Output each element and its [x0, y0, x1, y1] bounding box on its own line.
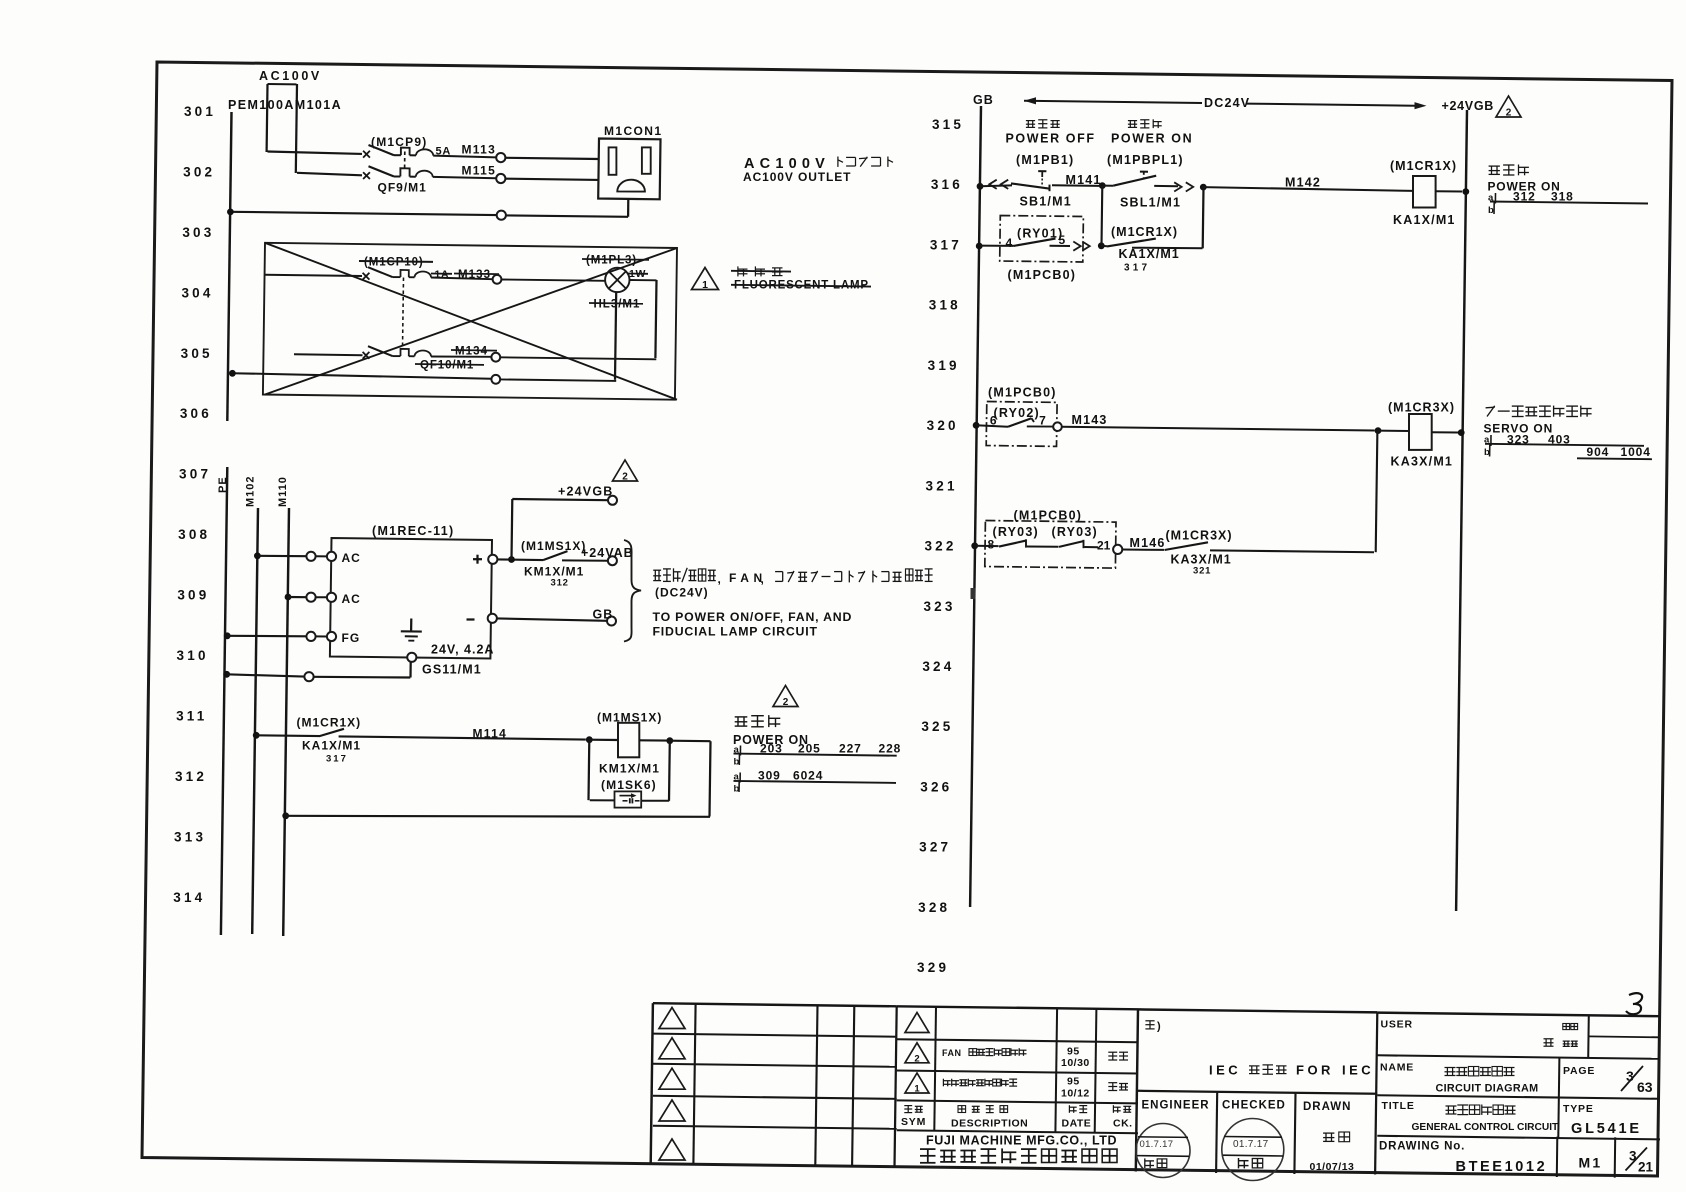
breaker label (M1CP9): [371, 135, 427, 149]
user/name/title cells frame: [1377, 1013, 1660, 1178]
junction M110 AC2: [285, 594, 292, 601]
wire M142: [1203, 187, 1413, 191]
wire +24VGB riser: [512, 499, 608, 560]
svg-text:317: 317: [930, 237, 962, 252]
wire row311 start: [256, 734, 320, 737]
junction M110 row313: [282, 812, 289, 819]
note brace: [624, 540, 641, 642]
source bracket AC100V: [267, 84, 297, 173]
stamp checked: [1222, 1119, 1284, 1181]
header CK: [1113, 1118, 1133, 1130]
crossref row b1: [734, 754, 740, 768]
svg-text:(DC24V): (DC24V): [655, 586, 709, 600]
engineer cells frame: [1216, 1092, 1295, 1174]
svg-text:M143: M143: [1072, 413, 1108, 427]
drawing no BTEE1012: [1456, 1159, 1548, 1175]
crossref row316 a: [1488, 190, 1648, 204]
deleted lamp right wire: [630, 280, 657, 358]
outlet label M1CON1: [604, 124, 662, 138]
pin label + (24V out): [473, 555, 482, 564]
svg-text:325: 325: [921, 719, 953, 734]
svg-text:DRAWING No.: DRAWING No.: [1379, 1141, 1465, 1153]
junction GB row317: [976, 243, 983, 250]
sheet 3/21: [1626, 1148, 1654, 1175]
wire + to node: [497, 558, 543, 561]
svg-text:(RY01): (RY01): [1017, 227, 1063, 241]
wire to coil: [589, 739, 618, 741]
revision date 95 10/12: [1061, 1076, 1090, 1100]
name kanji 電気回路線図: [1445, 1067, 1515, 1076]
terminal +24VAB: [608, 556, 617, 565]
svg-text:326: 326: [920, 779, 952, 794]
junction GB row316: [977, 183, 984, 190]
bus GB vertical: [970, 106, 981, 907]
revision strip triangle 5: [659, 1139, 685, 1160]
warning triangle 1: [692, 268, 719, 292]
relay contact RY03 second: [1059, 540, 1098, 548]
title GENERAL CONTROL CIRCUIT: [1412, 1122, 1560, 1133]
svg-text:FUJI MACHINE MFG.CO., LTD: FUJI MACHINE MFG.CO., LTD: [926, 1134, 1117, 1148]
breaker QF9/M1 pole 1: [268, 145, 497, 158]
note DC24V destinations kanji: [653, 568, 932, 586]
revision by 本田: [1108, 1052, 1128, 1060]
svg-text:228: 228: [879, 742, 902, 756]
rectifier designator GS11/M1: [422, 663, 482, 677]
contact KM1X/M1 (M1MS1X) label: [521, 539, 586, 553]
wire label M115: [462, 164, 497, 178]
svg-text:(M1CR3X): (M1CR3X): [1388, 401, 1455, 415]
deleted lamp bottom wire: [615, 292, 616, 380]
deleted box frame: [263, 243, 677, 400]
note IEC text: [1209, 1063, 1374, 1078]
pushbutton designator SBL1/M1: [1120, 196, 1181, 210]
junction GB row322: [971, 542, 978, 549]
wire outlet ground return: [506, 199, 628, 217]
header SYM kanji: [904, 1106, 922, 1113]
wire M143: [1062, 427, 1375, 431]
svg-text:KA3X/M1: KA3X/M1: [1391, 455, 1454, 469]
terminal + output: [488, 555, 497, 564]
svg-text:63: 63: [1637, 1079, 1653, 1095]
svg-text:(RY02): (RY02): [994, 406, 1040, 420]
svg-text:(M1SK6): (M1SK6): [601, 778, 657, 792]
terminal 24V bottom: [407, 653, 416, 662]
revision triangle 2: [905, 1043, 929, 1065]
terminal M143: [1053, 422, 1062, 431]
svg-text:KA1X/M1: KA1X/M1: [1119, 247, 1180, 261]
svg-text:(M1CR1X): (M1CR1X): [297, 716, 362, 730]
ground symbol: [401, 619, 422, 641]
revision strip triangle 1: [659, 1008, 685, 1029]
note TO POWER line1: [653, 610, 853, 624]
svg-text:DC24V: DC24V: [1204, 96, 1250, 110]
svg-text:DESCRIPTION: DESCRIPTION: [951, 1118, 1028, 1130]
pin label FG: [342, 631, 361, 645]
coil KA3X/M1 (M1CR3X): [1409, 414, 1432, 450]
svg-text:,: ,: [718, 572, 721, 586]
company kanji: [920, 1148, 1117, 1163]
deleted wire label M133: [454, 269, 499, 281]
svg-text:01.7.17: 01.7.17: [1233, 1139, 1269, 1150]
svg-text:2: 2: [783, 697, 789, 708]
svg-text:SYM: SYM: [901, 1116, 926, 1128]
wire FG link: [316, 635, 327, 637]
contact KA3X/M1 row322: [1165, 542, 1375, 552]
coil KA1X/M1 label (M1CR1X): [1390, 159, 1457, 173]
svg-text:1: 1: [914, 1084, 920, 1095]
header SYM: [901, 1116, 926, 1128]
junction PE FG: [224, 632, 231, 639]
svg-text:304: 304: [181, 285, 213, 300]
svg-text:01/07/13: 01/07/13: [1310, 1161, 1355, 1173]
label 殿: [1544, 1039, 1554, 1046]
sheet M1: [1579, 1155, 1603, 1171]
lamp HL3/M1 (deleted): [605, 268, 629, 292]
svg-text:324: 324: [922, 659, 954, 674]
wire 303 return to PE: [230, 212, 496, 215]
crossref SERVO ON: [1484, 422, 1554, 436]
svg-text:2: 2: [622, 472, 628, 483]
deleted note kanji fluorescent lamp: [731, 266, 791, 276]
svg-text:CIRCUIT DIAGRAM: CIRCUIT DIAGRAM: [1436, 1083, 1539, 1095]
svg-text:GB: GB: [593, 608, 614, 622]
svg-text:M146: M146: [1130, 536, 1166, 550]
deleted label HL3/M1: [589, 299, 643, 311]
wire coil right to corner: [670, 741, 711, 817]
outlet M1CON1 body: [598, 139, 660, 200]
crossref kanji POWER ON (row316): [1489, 165, 1529, 176]
wire M114: [339, 736, 586, 739]
wire label M142: [1285, 176, 1321, 190]
net label AC100V: [259, 69, 322, 83]
terminal M146: [1113, 545, 1122, 554]
svg-text:(M1PB1): (M1PB1): [1016, 153, 1074, 167]
wire label M143: [1072, 413, 1108, 427]
svg-text:NAME: NAME: [1380, 1062, 1414, 1074]
coil designator KA3X/M1: [1391, 455, 1454, 469]
pin label AC (top): [342, 551, 361, 565]
pushbutton SBL1/M1 POWER ON: [1111, 132, 1193, 146]
svg-text:5: 5: [1059, 233, 1066, 247]
pin 7: [1039, 414, 1046, 428]
deleted breaker label (M1CP10): [359, 257, 433, 269]
chevrons row316 left: [989, 180, 1008, 189]
contact designator KA1X/M1 (row311): [302, 739, 361, 753]
suppressor M1SK6: [615, 791, 642, 807]
svg-text:FOR: FOR: [1296, 1063, 1334, 1078]
type GL541E: [1571, 1121, 1642, 1137]
svg-text:4: 4: [1006, 236, 1013, 250]
pushbutton SB1/M1 POWER OFF: [1006, 132, 1096, 146]
svg-text:M115: M115: [462, 164, 497, 178]
svg-text:1: 1: [702, 279, 708, 291]
svg-text:303: 303: [182, 225, 214, 240]
drawn date: [1310, 1161, 1355, 1173]
svg-text:315: 315: [932, 117, 964, 132]
revision note fluorescent: [943, 1079, 1017, 1087]
relay RY03 box (M1PCB0): [985, 521, 1116, 569]
svg-text:311: 311: [176, 709, 207, 724]
svg-text:(M1PBPL1): (M1PBPL1): [1107, 153, 1184, 167]
svg-text:(RY03): (RY03): [1052, 525, 1098, 539]
svg-text:7: 7: [1039, 414, 1046, 428]
relay contact RY03 first: [975, 539, 1059, 547]
link row316-317: [1100, 186, 1103, 246]
revision date 95 10/30: [1061, 1046, 1090, 1070]
wire AC2 link: [316, 596, 327, 598]
deleted breaker pole 2: [294, 346, 492, 359]
contact KA1X/M1 blade (row311): [320, 729, 345, 736]
relay contact RY01: [979, 239, 1070, 246]
contact designator KM1X/M1: [524, 565, 584, 579]
svg-text:318: 318: [929, 298, 961, 313]
net label GB (left): [593, 608, 614, 622]
svg-text:314: 314: [173, 890, 205, 905]
svg-text:+24VGB: +24VGB: [558, 485, 614, 499]
revision strip frame: [651, 1003, 897, 1165]
bus label M102: [245, 475, 257, 507]
deleted terminal M133: [493, 275, 502, 284]
label NAME: [1380, 1062, 1414, 1074]
svg-text:CHECKED: CHECKED: [1222, 1100, 1286, 1112]
crossref row b2: [734, 781, 740, 795]
svg-text:ENGINEER: ENGINEER: [1142, 1100, 1210, 1112]
svg-text:M141: M141: [1066, 173, 1102, 187]
contact ref 317 (row311): [326, 754, 348, 765]
name CIRCUIT DIAGRAM: [1436, 1083, 1539, 1095]
svg-text:IEC: IEC: [1209, 1063, 1241, 1078]
pushbutton SBL1/M1 kanji POWER ON: [1128, 119, 1162, 128]
header CK kanji: [1113, 1105, 1131, 1113]
svg-text:KM1X/M1: KM1X/M1: [524, 565, 584, 579]
pushbutton SBL1/M1 contact: [1102, 172, 1178, 187]
net label +24VGB: [558, 485, 614, 499]
pushbutton SB1/M1 kanji POWER OFF: [1026, 120, 1060, 128]
label 分類: [1563, 1024, 1578, 1030]
svg-text:GS11/M1: GS11/M1: [422, 663, 482, 677]
rectifier GS11/M1 box (M1REC-11): [330, 538, 492, 659]
svg-text:302: 302: [183, 164, 215, 179]
note AC100V OUTLET: [743, 170, 851, 184]
svg-text:b: b: [1488, 205, 1494, 216]
svg-text:GL541E: GL541E: [1571, 1121, 1642, 1137]
wire coil KA3X to bus: [1432, 431, 1458, 433]
svg-text:329: 329: [917, 960, 949, 975]
contact designator KA3X/M1 row322: [1171, 553, 1232, 567]
svg-text:DRAWN: DRAWN: [1303, 1101, 1351, 1113]
svg-text:TITLE: TITLE: [1382, 1100, 1415, 1112]
svg-text:322: 322: [924, 539, 956, 554]
svg-text:321: 321: [1193, 566, 1211, 577]
deleted return wire: [232, 373, 491, 379]
handwritten page 3: [1626, 993, 1642, 1014]
coil KM1X/M1 (M1MS1X) label: [597, 711, 662, 725]
link row322-320 riser: [1376, 431, 1378, 553]
svg-text:KA3X/M1: KA3X/M1: [1171, 553, 1232, 567]
wire label M113: [462, 143, 497, 157]
junction M141: [1099, 182, 1106, 189]
svg-text:IEC: IEC: [1342, 1063, 1374, 1078]
relay label (RY01): [1017, 227, 1063, 241]
note kanji 注): [1145, 1021, 1161, 1033]
svg-text:320: 320: [927, 418, 959, 433]
net DC24V span: [1024, 97, 1427, 109]
pin 6: [990, 414, 997, 428]
terminal +24VGB: [608, 496, 617, 505]
svg-text:FG: FG: [342, 631, 361, 645]
svg-text:317: 317: [326, 754, 348, 765]
terminal GB: [607, 617, 616, 626]
junction M102 row311: [253, 732, 260, 739]
terminal M113: [496, 153, 505, 162]
terminal - output: [488, 614, 497, 623]
relay box label (M1PCB0) row317: [1008, 268, 1077, 282]
pushbutton designator SB1/M1: [1020, 195, 1072, 209]
deleted wire M134: [500, 357, 656, 359]
svg-text:M113: M113: [462, 143, 497, 157]
warning triangle 2 (row311): [773, 686, 798, 709]
breaker mechanical link: [404, 152, 406, 169]
deleted rating 1A: [431, 269, 452, 281]
revision note FAN: [942, 1048, 1027, 1058]
svg-text:321: 321: [926, 478, 958, 493]
crossref kanji SERVO ON: [1486, 406, 1592, 417]
wire - to GB: [497, 618, 607, 620]
wire PE to FG: [227, 635, 306, 638]
svg-text:M1CON1: M1CON1: [604, 124, 662, 138]
bus label PE: [217, 476, 229, 493]
wire AC1 link: [316, 555, 327, 557]
deleted label QF10/M1: [415, 360, 484, 372]
svg-text:327: 327: [919, 840, 951, 855]
wire RY02 to terminal: [1027, 425, 1053, 427]
label TITLE: [1382, 1100, 1415, 1112]
svg-text:312: 312: [551, 578, 569, 589]
svg-text:301: 301: [184, 104, 216, 119]
svg-text:PAGE: PAGE: [1563, 1065, 1595, 1077]
header ENGINEER: [1142, 1100, 1210, 1112]
revision by 本間: [1108, 1083, 1128, 1091]
coil designator KM1X/M1: [599, 762, 660, 776]
svg-text:01.7.17: 01.7.17: [1140, 1139, 1174, 1150]
svg-text:308: 308: [178, 527, 210, 542]
breaker designator QF9/M1: [378, 181, 427, 195]
terminal AC1 b: [327, 552, 336, 561]
svg-text:(M1CP9): (M1CP9): [371, 135, 427, 149]
svg-text:,: ,: [761, 572, 764, 586]
coil designator KA1X/M1: [1393, 213, 1456, 227]
contact ref 317: [1124, 263, 1150, 274]
header DRAWN: [1303, 1101, 1351, 1113]
warning triangle 2 (top right): [1496, 96, 1521, 119]
wire M141: [1052, 184, 1099, 187]
svg-text:904: 904: [1587, 445, 1610, 459]
svg-text:(M1PCB0): (M1PCB0): [988, 386, 1057, 400]
wire bottom to rectifier: [314, 662, 411, 678]
header DATE kanji: [1069, 1105, 1087, 1113]
svg-text:10/30: 10/30: [1061, 1057, 1090, 1069]
svg-text:2: 2: [1506, 108, 1512, 119]
svg-text:AC: AC: [342, 551, 361, 565]
svg-text:QF9/M1: QF9/M1: [378, 181, 427, 195]
svg-text:AC100V: AC100V: [259, 69, 322, 83]
svg-text:TO POWER ON/OFF, FAN, AND: TO POWER ON/OFF, FAN, AND: [653, 610, 853, 624]
svg-text:316: 316: [931, 177, 963, 192]
contact designator KA1X/M1 row317: [1119, 247, 1180, 261]
svg-text:310: 310: [177, 648, 209, 663]
terminal AC2 a: [306, 593, 315, 602]
svg-text:DATE: DATE: [1062, 1118, 1092, 1130]
deleted return terminal: [491, 375, 500, 384]
svg-text:BTEE1012: BTEE1012: [1456, 1159, 1548, 1175]
svg-text:AC100V OUTLET: AC100V OUTLET: [743, 170, 851, 184]
revision triangle row A: [905, 1013, 929, 1033]
coil KM1X/M1 (M1MS1X): [618, 723, 639, 758]
svg-text:21: 21: [1097, 539, 1111, 553]
deleted terminal M134: [491, 353, 500, 362]
svg-text:307: 307: [179, 467, 211, 482]
revision table frame: [895, 1006, 1139, 1171]
header DESCRIPTION kanji: [958, 1106, 1008, 1113]
crossref row320 b: [1484, 444, 1652, 459]
svg-text:USER: USER: [1381, 1019, 1413, 1031]
revision strip triangle 3: [659, 1068, 685, 1089]
bus M102 vertical: [252, 508, 258, 934]
svg-text:GENERAL CONTROL CIRCUIT: GENERAL CONTROL CIRCUIT: [1412, 1122, 1560, 1133]
svg-text:(M1REC-11): (M1REC-11): [372, 524, 454, 538]
svg-text:95: 95: [1067, 1046, 1080, 1058]
note box frame: [1138, 1009, 1377, 1174]
svg-text:2: 2: [914, 1053, 919, 1064]
note TO POWER line2: [653, 625, 818, 639]
relay contact RY02: [976, 418, 1034, 427]
contact KA1X/M1 label row317 (M1CR1X): [1111, 225, 1178, 239]
svg-text:CK.: CK.: [1113, 1118, 1133, 1130]
terminal M115: [496, 174, 505, 183]
svg-text:): ): [1157, 1021, 1161, 1033]
junction PE bottom: [223, 671, 230, 678]
junction coil right: [666, 737, 673, 744]
company FUJI MACHINE: [926, 1134, 1117, 1148]
crossref POWER ON (row311): [733, 733, 809, 747]
drawn by 立松: [1323, 1132, 1350, 1142]
terminal FG a: [306, 632, 315, 641]
warning triangle 2 (left): [613, 460, 638, 483]
pin 21: [1097, 539, 1111, 553]
terminal 303 return: [497, 211, 506, 220]
contact KA3X/M1 label (M1CR3X): [1166, 529, 1233, 543]
svg-text:KA1X/M1: KA1X/M1: [1393, 213, 1456, 227]
deleted lamp rating 1W: [627, 268, 648, 280]
svg-text:5A: 5A: [436, 146, 452, 158]
crossref row a2: [734, 769, 897, 783]
junction +24VGB row316: [1462, 188, 1469, 195]
junction PE row303: [227, 209, 234, 216]
wire M113 to outlet: [505, 158, 599, 159]
junction M142 left: [1200, 184, 1207, 191]
svg-text:KA1X/M1: KA1X/M1: [302, 739, 361, 753]
deleted breaker pole 1: [265, 267, 493, 279]
wire label M146: [1130, 536, 1166, 550]
svg-text:21: 21: [1638, 1160, 1654, 1175]
svg-text:SBL1/M1: SBL1/M1: [1120, 196, 1181, 210]
svg-text:M1: M1: [1579, 1155, 1603, 1171]
svg-text:323: 323: [1507, 433, 1530, 447]
deleted return wire 2: [500, 379, 616, 381]
bus label M110: [277, 476, 289, 507]
breaker QF9/M1 pole 2: [297, 166, 496, 179]
rectifier label (M1REC-11): [372, 524, 454, 538]
